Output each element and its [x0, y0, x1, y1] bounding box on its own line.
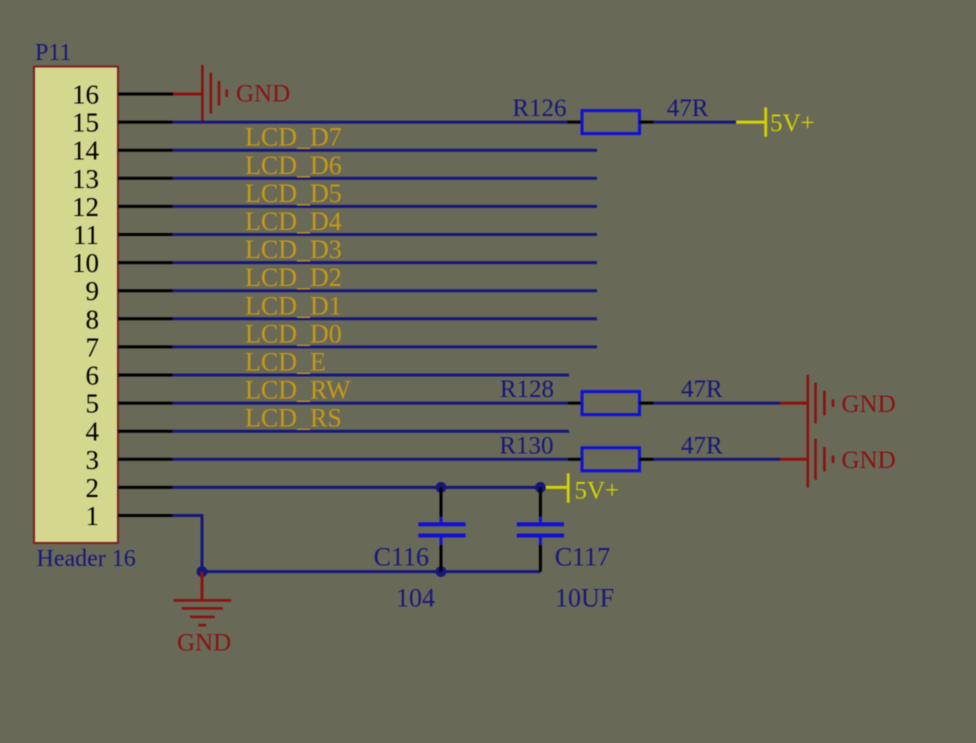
- capacitor C117 top lead black: [539, 487, 542, 516]
- wire pin10 stub black: [118, 261, 173, 264]
- svg-text:47R: 47R: [681, 376, 723, 403]
- svg-text:104: 104: [396, 583, 435, 612]
- svg-text:R130: R130: [499, 432, 553, 459]
- wire pin9 stub black: [118, 289, 173, 292]
- wire pin4 stub black: [118, 430, 173, 433]
- junction at C117 top: [535, 482, 546, 493]
- svg-text:4: 4: [86, 417, 100, 447]
- wire pin8 stub black: [118, 317, 173, 320]
- capacitor C117 symbol: [517, 517, 564, 545]
- svg-text:11: 11: [73, 220, 99, 250]
- svg-text:5V+: 5V+: [575, 477, 620, 504]
- wire pin9 LCD_D2 blue: [173, 289, 597, 292]
- svg-text:9: 9: [86, 276, 100, 306]
- wire pin5 LCD_RW blue: [173, 402, 568, 405]
- ground GND (pin1) lead red: [201, 572, 204, 601]
- power 5V+ bar: [764, 107, 767, 136]
- svg-text:LCD_D7: LCD_D7: [245, 123, 342, 152]
- power 5V+ lead yellow: [736, 121, 766, 124]
- wire pin3 blue: [173, 458, 568, 461]
- wire pin10 LCD_D3 blue: [173, 261, 597, 264]
- svg-text:10: 10: [72, 248, 99, 278]
- svg-text:LCD_E: LCD_E: [245, 348, 326, 377]
- wire pin1 stub black: [118, 514, 173, 517]
- wire R128 to GND blue: [654, 402, 781, 405]
- svg-text:LCD_D2: LCD_D2: [245, 263, 342, 292]
- connector P11 body: [34, 67, 118, 544]
- wire pin3 stub black: [118, 458, 173, 461]
- wire bottom rail blue: [202, 570, 540, 573]
- svg-text:P11: P11: [35, 40, 71, 66]
- svg-text:12: 12: [72, 192, 99, 222]
- svg-text:3: 3: [86, 445, 100, 475]
- svg-text:LCD_D3: LCD_D3: [245, 235, 342, 264]
- svg-text:15: 15: [72, 108, 99, 138]
- wire pin12 LCD_D5 blue: [173, 205, 597, 208]
- wire pin13 stub black: [118, 177, 173, 180]
- svg-text:5V+: 5V+: [770, 110, 815, 137]
- wire pin14 stub black: [118, 149, 173, 152]
- ground GND (R130) symbol: [807, 431, 835, 488]
- ground GND (R128) lead red: [780, 402, 809, 405]
- wire R126 left pin black: [568, 121, 583, 124]
- wire pin16 GND lead red: [173, 93, 203, 96]
- wire pin1 blue vertical: [201, 516, 204, 572]
- wire R130 to GND blue: [654, 458, 781, 461]
- svg-text:14: 14: [72, 136, 100, 166]
- svg-text:C116: C116: [374, 543, 429, 572]
- capacitor C117 bottom lead black: [539, 545, 542, 572]
- junction at C116 bottom: [436, 566, 447, 577]
- wire pin14 LCD_D7 blue: [173, 149, 597, 152]
- svg-text:13: 13: [72, 164, 99, 194]
- ground GND (R128) symbol: [807, 375, 835, 432]
- ground GND (pin1) symbol: [174, 599, 232, 626]
- wire pin7 stub black: [118, 345, 173, 348]
- svg-text:6: 6: [86, 361, 100, 391]
- svg-text:R128: R128: [500, 376, 554, 403]
- wire R126 right pin black: [640, 121, 654, 124]
- svg-text:5: 5: [86, 389, 100, 419]
- wire pin6 LCD_E blue: [173, 374, 569, 377]
- wire pin6 stub black: [118, 374, 173, 377]
- svg-text:LCD_D1: LCD_D1: [245, 291, 342, 320]
- wire R128 right pin black: [640, 402, 654, 405]
- svg-text:LCD_D5: LCD_D5: [245, 179, 342, 208]
- wire pin11 LCD_D4 blue: [173, 233, 597, 236]
- svg-text:8: 8: [86, 304, 100, 334]
- wire pin15 blue: [173, 121, 568, 124]
- capacitor C116 symbol: [418, 517, 465, 545]
- svg-text:GND: GND: [236, 81, 290, 108]
- resistor R130: [582, 448, 640, 471]
- wire R128 left pin black: [568, 402, 582, 405]
- svg-text:Header 16: Header 16: [37, 546, 136, 572]
- wire pin16 stub black: [118, 93, 173, 96]
- wire pin7 LCD_D0 blue: [173, 345, 597, 348]
- svg-text:LCD_D0: LCD_D0: [245, 319, 342, 348]
- svg-text:47R: 47R: [681, 432, 723, 459]
- svg-text:16: 16: [72, 80, 99, 110]
- svg-text:LCD_D6: LCD_D6: [245, 151, 342, 180]
- wire pin13 LCD_D6 blue: [173, 177, 597, 180]
- wire pin8 LCD_D1 blue: [173, 317, 597, 320]
- power 5V+ (pin2) bar: [567, 473, 570, 502]
- svg-text:2: 2: [86, 473, 100, 503]
- ground GND (R130) lead red: [780, 458, 809, 461]
- wire pin5 stub black: [118, 402, 173, 405]
- wire pin1 blue horizontal: [173, 514, 204, 517]
- wire pin11 stub black: [118, 233, 173, 236]
- ground GND pin16 symbol: [201, 65, 228, 122]
- wire R130 left pin black: [568, 458, 582, 461]
- svg-text:C117: C117: [555, 543, 610, 572]
- svg-text:47R: 47R: [667, 95, 709, 122]
- svg-text:10UF: 10UF: [555, 583, 614, 612]
- svg-text:GND: GND: [842, 391, 896, 418]
- wire pin4 LCD_RS blue: [173, 430, 569, 433]
- junction at C116 top: [436, 482, 447, 493]
- wire pin2 stub black: [118, 486, 173, 489]
- resistor R126: [582, 111, 640, 134]
- svg-text:LCD_RW: LCD_RW: [245, 376, 351, 405]
- wire pin15 stub black: [118, 121, 173, 124]
- junction at pin1 corner: [197, 566, 208, 577]
- svg-text:LCD_RS: LCD_RS: [245, 404, 342, 433]
- wire R126 to 5V+ blue: [654, 121, 737, 124]
- wire R130 right pin black: [640, 458, 654, 461]
- svg-text:GND: GND: [842, 447, 896, 474]
- svg-text:LCD_D4: LCD_D4: [245, 207, 342, 236]
- svg-text:GND: GND: [177, 629, 231, 656]
- wire pin2 blue: [173, 486, 543, 489]
- power 5V+ (pin2) lead yellow: [543, 486, 568, 489]
- svg-text:1: 1: [86, 501, 100, 531]
- capacitor C116 top lead black: [440, 487, 443, 516]
- resistor R128: [582, 392, 640, 415]
- svg-text:R126: R126: [512, 95, 566, 122]
- svg-text:7: 7: [86, 332, 100, 362]
- wire pin12 stub black: [118, 205, 173, 208]
- capacitor C116 bottom lead black: [440, 545, 443, 572]
